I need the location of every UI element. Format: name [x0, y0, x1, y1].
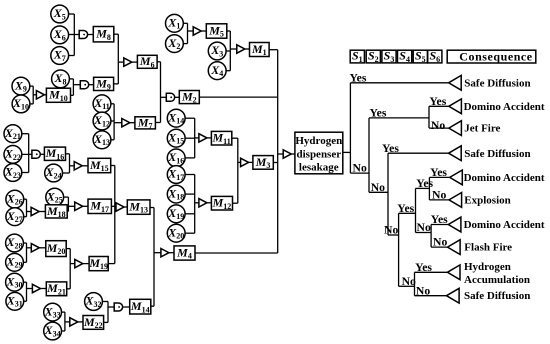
wire X23 to bus: [22, 172, 29, 174]
intermediate event M17: [88, 199, 111, 214]
wire M8 output: [114, 33, 119, 35]
wire X13 to bus: [111, 139, 114, 141]
wire X21 to bus: [22, 133, 29, 135]
OR gate into M18: [31, 207, 39, 215]
svg-text:Hydrogen: Hydrogen: [464, 261, 511, 273]
wire bus M6-M7: [160, 62, 162, 123]
wire AND gate to M2: [175, 96, 179, 98]
wire X28 to bus: [24, 242, 27, 244]
wire OR gate to M5: [201, 30, 206, 32]
intermediate event M16: [44, 146, 65, 161]
intermediate event M19: [88, 256, 108, 271]
wire bus to OR gate of M12: [195, 202, 199, 204]
wire X18 to bus: [186, 193, 195, 195]
wire S1 No branch: [350, 172, 369, 174]
intermediate event M2: [179, 89, 199, 104]
AND gate into M9: [80, 81, 88, 89]
basic event X18: [167, 185, 185, 203]
wire M21 output: [67, 288, 71, 290]
OR gate into top event: [283, 150, 291, 158]
wire OR gate to M21: [40, 288, 46, 290]
wire S2 Yes branch: [369, 117, 429, 119]
wire M16 output: [66, 153, 70, 155]
header S3: [382, 49, 396, 64]
wire bus to AND gate of M2: [161, 96, 167, 98]
svg-text:No: No: [431, 119, 445, 132]
header S2: [366, 49, 380, 64]
wire S5a No branch: [416, 232, 432, 234]
wire S4 Yes branch: [399, 212, 416, 214]
basic event X5: [51, 5, 69, 23]
wire OR gate to M13: [124, 206, 127, 208]
OR gate into M13: [116, 203, 124, 211]
svg-text:Domino Accident: Domino Accident: [464, 219, 545, 231]
wire S3 No branch: [388, 234, 399, 236]
OR gate into M20: [31, 244, 39, 252]
wire bus to OR gate of M13: [115, 206, 116, 208]
wire X8 to bus: [70, 78, 74, 80]
wire Yes branch to Domino Accident: [429, 105, 449, 107]
wire M20 output: [66, 248, 70, 250]
outcome symbol Hydrogen Accumulation: [447, 265, 460, 280]
svg-text:Yes: Yes: [415, 261, 432, 274]
wire OR gate to M6: [132, 61, 138, 63]
basic event X12: [93, 112, 111, 130]
wire M7 output: [155, 122, 160, 124]
wire bus M5-X3-X4: [229, 31, 231, 71]
wire X1 to bus: [184, 22, 188, 24]
wire bus to AND gate of M14: [108, 306, 114, 308]
basic event X3: [208, 42, 226, 60]
svg-text:Yes: Yes: [430, 166, 447, 179]
basic event X11: [93, 95, 111, 113]
basic event X20: [167, 224, 185, 242]
wire X3 to bus: [227, 50, 231, 52]
svg-text:No: No: [371, 181, 385, 194]
wire M14 output: [151, 305, 154, 307]
wire X24 to bus: [63, 172, 70, 174]
intermediate event M12: [211, 196, 232, 211]
wire S2 No branch: [369, 191, 388, 193]
wire X30 to bus: [24, 281, 27, 283]
svg-text:Explosion: Explosion: [464, 195, 510, 207]
wire M2 output: [199, 96, 277, 98]
basic event X1: [166, 14, 184, 32]
basic event X24: [45, 164, 63, 182]
wire main bus M1-M4: [277, 50, 279, 253]
wire X19 to bus: [186, 213, 195, 215]
wire M3 output: [273, 162, 277, 164]
wire X9 to bus: [30, 85, 33, 87]
wire bus to OR gate of M11: [195, 137, 199, 139]
wire OR gate to M3: [249, 161, 253, 163]
wire X25 to bus: [64, 196, 69, 198]
wire event-tree node S5b vertical: [414, 272, 416, 295]
wire AND gate to M9: [89, 84, 94, 86]
intermediate event M7: [135, 115, 156, 130]
OR gate into M17: [75, 202, 83, 210]
wire OR gate to M7: [130, 122, 135, 124]
wire X31 to bus: [24, 300, 27, 302]
wire bus to OR gate of M15: [70, 165, 75, 167]
svg-text:No: No: [432, 189, 446, 202]
wire bus X5-X7: [73, 14, 75, 56]
wire bus X1-X2: [187, 23, 189, 43]
intermediate event M1: [250, 42, 270, 57]
wire No branch to Explosion: [429, 199, 449, 201]
wire X2 to bus: [184, 43, 188, 45]
wire AND gate to M8: [88, 34, 93, 36]
wire bus M15-M17-M19: [114, 166, 116, 264]
AND gate into M8: [79, 31, 87, 39]
wire M13 output: [150, 207, 154, 209]
svg-text:Yes: Yes: [382, 142, 399, 155]
wire OR gate to M17: [83, 205, 88, 207]
svg-text:Yes: Yes: [397, 202, 414, 215]
wire OR gate to M10: [44, 94, 46, 96]
wire OR gate to M12: [207, 202, 212, 204]
basic event X13: [93, 131, 111, 149]
wire M10 output: [71, 94, 74, 96]
wire X26 to bus: [24, 198, 27, 200]
svg-text:Yes: Yes: [429, 95, 446, 108]
wire X33 to bus: [62, 311, 65, 313]
wire M11 output: [232, 137, 238, 139]
OR gate into M3: [241, 158, 249, 166]
svg-text:Domino Accident: Domino Accident: [464, 101, 545, 113]
basic event X17: [167, 166, 185, 184]
wire X7 to bus: [69, 55, 74, 57]
svg-text:Safe Diffusion: Safe Diffusion: [464, 148, 530, 160]
basic event X7: [51, 47, 69, 65]
basic event X19: [167, 205, 185, 223]
intermediate event M21: [46, 281, 67, 296]
svg-text:No: No: [417, 221, 431, 234]
basic event X30: [5, 273, 23, 291]
wire M1 output: [269, 49, 278, 51]
wire X32 to bus: [102, 301, 108, 303]
wire X27 to bus: [24, 216, 27, 218]
wire event-tree node S1 vertical: [349, 83, 351, 173]
wire bus X32-M22: [107, 302, 109, 323]
basic event X25: [46, 188, 64, 206]
svg-text:No: No: [416, 284, 430, 297]
basic event X33: [44, 303, 62, 321]
wire bus to OR gate of M20: [27, 247, 32, 249]
wire bus to AND gate of M16: [29, 153, 32, 155]
basic event X8: [52, 70, 70, 88]
svg-text:lesakage: lesakage: [299, 162, 339, 174]
OR gate into M19: [75, 259, 83, 267]
svg-text:Flash Fire: Flash Fire: [464, 242, 512, 254]
intermediate event M14: [130, 299, 151, 314]
outcome symbol Jet Fire: [449, 121, 462, 136]
intermediate event M20: [46, 241, 67, 257]
intermediate event M3: [253, 155, 273, 170]
wire bus to OR gate of M18: [27, 211, 32, 213]
OR gate into M22: [70, 318, 78, 326]
wire M12 output: [233, 202, 238, 204]
wire X11 to bus: [111, 103, 114, 105]
wire bus to OR gate of M1: [230, 48, 237, 50]
svg-text:Yes: Yes: [370, 107, 387, 120]
wire OR gate to top event box: [291, 153, 295, 155]
wire bus X9-X10: [32, 86, 34, 104]
svg-text:Domino Accident: Domino Accident: [464, 172, 545, 184]
wire Yes branch to Domino Accident 2: [429, 176, 449, 178]
wire M18 output: [67, 210, 68, 212]
basic event X28: [5, 234, 23, 252]
wire bus to OR gate of M21: [27, 288, 33, 290]
wire bus to OR gate of M4: [154, 252, 161, 254]
OR gate into M7: [122, 119, 130, 127]
header S1: [350, 49, 364, 64]
wire S4 No branch: [399, 285, 415, 287]
outcome symbol Domino Accident: [449, 99, 462, 114]
wire bus X30-X31: [26, 282, 28, 301]
outcome symbol Explosion: [449, 193, 462, 208]
wire bus X28-X29: [26, 243, 28, 262]
svg-text:Safe Diffusion: Safe Diffusion: [464, 77, 530, 89]
basic event X22: [4, 146, 22, 164]
basic event X15: [167, 129, 185, 147]
wire S1 Yes branch to Safe Diffusion: [350, 82, 448, 84]
wire bus to AND gate of M9: [73, 84, 80, 86]
wire bus to OR gate of M22: [65, 321, 70, 323]
wire X10 to bus: [30, 103, 33, 105]
wire bus to OR gate of M3: [238, 161, 241, 163]
wire bus X26-X27: [26, 199, 28, 217]
svg-text:No: No: [384, 224, 398, 237]
wire bus to OR gate of M7: [114, 122, 122, 124]
svg-text:dispenser: dispenser: [296, 148, 341, 160]
wire OR gate to M18: [39, 211, 45, 213]
AND gate into M16: [32, 150, 40, 158]
OR gate into M5: [193, 27, 201, 35]
outcome symbol Flash Fire: [448, 240, 461, 255]
OR gate into M4: [161, 249, 169, 257]
wire S3 Yes branch to Safe Diffusion: [388, 152, 449, 154]
wire X14 to bus: [186, 117, 195, 119]
wire event-tree node S2 vertical: [368, 118, 370, 192]
wire bus M8-M9: [117, 34, 119, 84]
svg-text:No: No: [433, 236, 447, 249]
OR gate into M15: [74, 162, 82, 170]
wire top event output: [343, 151, 351, 153]
wire main bus to OR gate of top event: [278, 153, 284, 155]
top event box Hydrogen dispenser lesakage: [295, 132, 343, 174]
wire bus to OR gate of M19: [70, 263, 75, 265]
wire OR gate to M20: [39, 247, 46, 249]
svg-text:Jet Fire: Jet Fire: [464, 123, 500, 135]
wire event-tree node S6a vertical: [428, 106, 430, 128]
intermediate event M6: [137, 54, 157, 69]
wire bus to OR gate of M5: [188, 30, 194, 32]
header S6: [428, 49, 442, 64]
wire bus X33-X34: [64, 312, 66, 331]
wire bus to OR gate of M10: [33, 94, 36, 96]
wire M19 output: [108, 263, 115, 265]
wire Yes branch to Domino Accident 3: [431, 224, 448, 226]
OR gate into M10: [36, 91, 44, 99]
basic event X10: [12, 95, 30, 113]
basic event X29: [5, 253, 23, 271]
wire No branch to Flash Fire: [431, 246, 447, 248]
svg-text:Yes: Yes: [431, 213, 448, 226]
intermediate event M8: [93, 27, 114, 42]
wire bus X11-X13: [113, 104, 115, 140]
wire bus to OR gate of M17: [68, 205, 74, 207]
basic event X34: [44, 322, 62, 340]
basic event X26: [6, 190, 24, 208]
wire M9 output: [114, 83, 119, 85]
svg-text:Accumulation: Accumulation: [464, 274, 530, 286]
wire M17 output: [111, 205, 114, 207]
wire X4 to bus: [227, 70, 231, 72]
wire M4 output: [195, 252, 278, 254]
wire M22 output: [104, 321, 108, 323]
intermediate event M22: [83, 315, 104, 330]
wire event-tree node S3 vertical: [387, 153, 389, 235]
wire M6 output: [157, 61, 160, 63]
wire OR gate to M15: [82, 165, 88, 167]
intermediate event M4: [174, 245, 195, 260]
wire event-tree node S6b vertical: [428, 177, 430, 200]
basic event X23: [4, 164, 22, 182]
wire X20 to bus: [186, 232, 195, 234]
header S5: [413, 49, 427, 64]
svg-text:No: No: [353, 162, 367, 175]
OR gate into M6: [124, 58, 132, 66]
basic event X27: [6, 208, 24, 226]
outcome symbol Safe Diffusion 2: [449, 146, 462, 161]
wire No branch to Jet Fire: [429, 127, 449, 129]
basic event X9: [12, 77, 30, 95]
wire OR gate to M22: [78, 321, 83, 323]
wire bus to OR gate of M6: [118, 61, 124, 63]
basic event X14: [167, 109, 185, 127]
wire bus X21-X23: [28, 134, 30, 173]
intermediate event M15: [88, 158, 111, 173]
wire bus X8-M10: [72, 79, 74, 95]
header Consequence: [447, 50, 536, 64]
basic event X31: [6, 292, 24, 310]
OR gate into M21: [32, 284, 40, 292]
wire S5a Yes branch: [416, 187, 430, 189]
basic event X4: [208, 62, 226, 80]
wire M5 output: [227, 30, 231, 32]
outcome symbol Safe Diffusion 3: [447, 288, 460, 303]
wire X5 to bus: [69, 13, 74, 15]
basic event X2: [166, 35, 184, 53]
wire X6 to AND gate: [69, 34, 79, 36]
basic event X6: [51, 26, 69, 44]
basic event X16: [167, 149, 185, 167]
wire X34 to bus: [62, 330, 65, 332]
wire OR gate to M11: [207, 137, 212, 139]
wire AND gate to M16: [41, 153, 45, 155]
svg-text:Hydrogen: Hydrogen: [295, 135, 342, 147]
wire bus M13-M14: [153, 208, 155, 307]
wire X17 to bus: [186, 174, 195, 176]
intermediate event M5: [206, 23, 227, 38]
svg-text:No: No: [402, 275, 416, 288]
wire X15 to bus: [186, 137, 195, 139]
intermediate event M18: [45, 204, 67, 219]
wire No branch to Safe Diffusion 3: [415, 295, 447, 297]
basic event X32: [84, 293, 102, 311]
wire bus X17-X20: [194, 175, 196, 234]
basic event X21: [4, 125, 22, 143]
wire event-tree node S4 vertical: [398, 213, 400, 286]
wire X22 to bus: [22, 153, 29, 155]
wire AND gate to M14: [123, 306, 130, 308]
wire event-tree node S6c vertical: [430, 225, 432, 248]
intermediate event M10: [46, 88, 70, 103]
outcome symbol Safe Diffusion: [449, 75, 462, 90]
OR gate into M1: [237, 45, 245, 53]
header S4: [398, 49, 412, 64]
wire event-tree node S5a vertical: [415, 188, 417, 232]
AND gate into M14: [114, 303, 122, 311]
outcome symbol Domino Accident 3: [448, 217, 461, 232]
wire bus M20-M21: [69, 249, 71, 289]
svg-text:Consequence: Consequence: [459, 50, 533, 64]
wire bus M11-M12: [237, 138, 239, 203]
OR gate into M11: [199, 134, 207, 142]
wire bus X14-X16: [194, 118, 196, 158]
wire OR gate to M1: [245, 48, 250, 50]
OR gate into M12: [199, 199, 207, 207]
AND gate into M2: [166, 93, 174, 101]
intermediate event M13: [127, 200, 150, 215]
svg-text:Yes: Yes: [350, 71, 367, 84]
wire OR gate to M19: [83, 263, 89, 265]
wire M15 output: [111, 165, 115, 167]
wire Yes branch to Hydrogen Accumulation: [415, 271, 448, 273]
wire X16 to bus: [186, 157, 195, 159]
outcome symbol Domino Accident 2: [450, 170, 463, 185]
wire bus M16-X24: [69, 154, 71, 173]
wire bus X25-M18: [67, 197, 69, 211]
wire X29 to bus: [24, 261, 27, 263]
wire OR gate to M4: [169, 252, 174, 254]
intermediate event M9: [94, 76, 114, 91]
intermediate event M11: [211, 131, 231, 146]
wire X12 to bus: [111, 120, 114, 122]
svg-text:Safe Diffusion: Safe Diffusion: [464, 290, 530, 302]
